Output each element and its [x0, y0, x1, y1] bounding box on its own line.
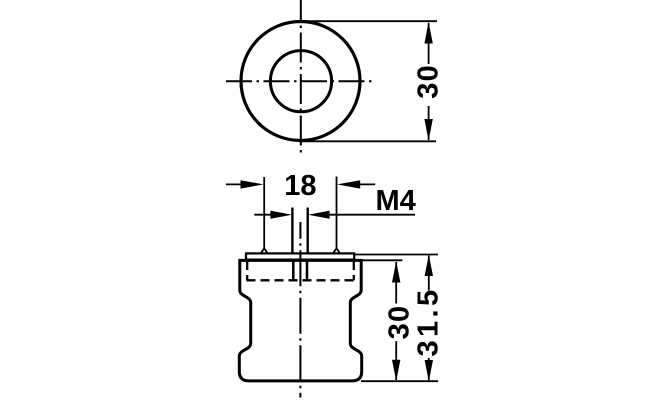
dim 18 extension line right — [336, 177, 338, 250]
dim 31.5 line lower segment — [428, 358, 430, 380]
extension line 31.5 top — [353, 254, 438, 256]
outer circle (top view, dia 30) — [241, 22, 360, 141]
countersink mark right — [333, 248, 340, 253]
stud thread line right (M4 ext) — [307, 208, 309, 254]
dim 30 line lower segment (side view) — [395, 341, 397, 380]
svg-text:M4: M4 — [376, 185, 416, 217]
hidden recess dashed left vertical — [246, 261, 248, 280]
dim 31.5 line upper segment — [428, 256, 430, 291]
dim 18 leader right — [359, 183, 375, 185]
arrowhead right-pointing (M4 left) — [270, 211, 292, 219]
stud thread line left (M4 ext) — [291, 208, 293, 254]
arrowhead down (31.5) — [425, 360, 433, 381]
arrowhead down (30 top view) — [424, 119, 432, 141]
extension line 30 top (side view) — [359, 259, 402, 261]
hidden recess dashed right vertical — [353, 261, 355, 280]
arrowhead left-pointing (M4 right) — [308, 211, 330, 219]
arrowhead down (30 side) — [392, 360, 400, 381]
arrowhead up (31.5) — [425, 255, 433, 276]
inner circle (bore) — [270, 51, 331, 112]
thread hole line right below plate — [306, 260, 309, 281]
countersink mark left — [261, 248, 268, 253]
svg-text:30: 30 — [413, 64, 445, 99]
hidden recess dashed horizontal — [247, 279, 355, 281]
top plate — [246, 253, 354, 259]
dimension line 30 upper segment — [428, 23, 430, 64]
arrowhead up (30 top view) — [424, 22, 432, 44]
thread hole line left below plate — [292, 260, 295, 281]
arrowhead left-pointing (18 right) — [337, 180, 360, 188]
dim 18 extension line left — [263, 177, 265, 249]
horizontal centerline (top view) — [226, 80, 375, 82]
vertical centerline (side view) — [299, 222, 301, 398]
dimension line 30 lower segment — [428, 106, 430, 140]
extension line bottom (dia 30 dim) — [301, 140, 436, 142]
vertical centerline (top view) — [300, 0, 302, 155]
svg-text:30: 30 — [384, 305, 416, 340]
extension line top (dia 30 dim) — [301, 20, 437, 22]
dim 30 line upper segment (side view) — [395, 262, 397, 304]
dim 18 leader left — [226, 183, 242, 185]
arrowhead up (30 side) — [392, 261, 400, 282]
M4 leader right — [329, 214, 416, 216]
arrowhead right-pointing (18 left) — [241, 180, 264, 188]
svg-text:31.5: 31.5 — [413, 286, 445, 356]
extension line bottom shared — [361, 380, 438, 382]
svg-text:18: 18 — [284, 170, 316, 202]
body outline (side view) — [239, 260, 361, 381]
M4 leader left — [254, 214, 272, 216]
